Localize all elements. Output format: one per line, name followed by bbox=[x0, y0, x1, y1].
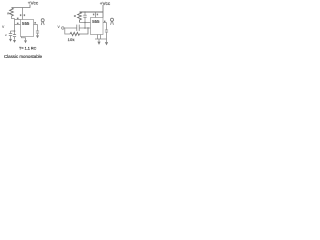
svg-text:+Vcc: +Vcc bbox=[100, 1, 111, 6]
svg-text:555: 555 bbox=[22, 21, 30, 26]
svg-text:Classic monostable: Classic monostable bbox=[4, 54, 43, 59]
svg-text:555: 555 bbox=[92, 19, 100, 24]
svg-text:T= 1.1 RC: T= 1.1 RC bbox=[19, 47, 37, 51]
svg-text:10k: 10k bbox=[68, 37, 75, 42]
svg-text:+Vcc: +Vcc bbox=[28, 0, 39, 5]
